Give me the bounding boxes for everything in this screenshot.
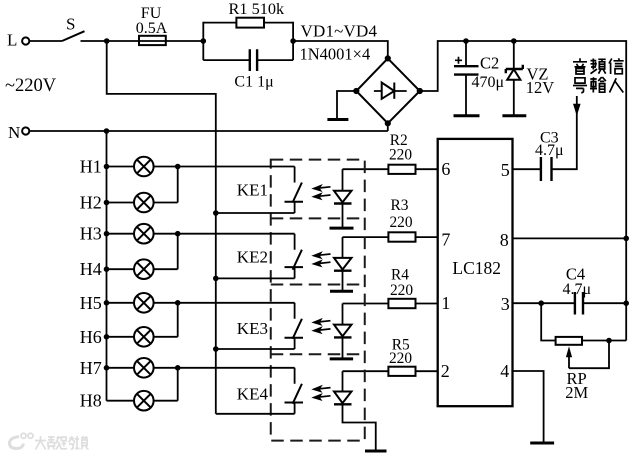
svg-text:2M: 2M [565,383,588,402]
svg-text:12V: 12V [526,78,555,97]
svg-text:6: 6 [441,159,450,179]
svg-text:VD1~VD4: VD1~VD4 [301,22,378,41]
svg-text:470μ: 470μ [472,74,505,91]
svg-text:H3: H3 [80,224,102,244]
svg-text:KE1: KE1 [237,181,268,200]
svg-text:~220V: ~220V [5,76,57,96]
svg-text:H7: H7 [80,358,102,378]
svg-text:H5: H5 [80,293,102,313]
svg-text:H2: H2 [80,193,102,213]
svg-text:L: L [7,31,17,50]
svg-text:R1 510k: R1 510k [229,0,285,18]
svg-text:5: 5 [501,160,510,180]
svg-text:R3: R3 [391,197,409,214]
svg-text:KE2: KE2 [237,248,268,267]
svg-text:7: 7 [441,229,450,249]
svg-text:4.7μ: 4.7μ [563,281,592,298]
svg-text:H1: H1 [80,157,102,177]
svg-text:0.5A: 0.5A [136,20,168,37]
svg-text:220: 220 [390,282,413,299]
svg-text:C2: C2 [480,53,499,72]
svg-text:LC182: LC182 [452,258,501,278]
svg-text:8: 8 [500,230,509,250]
svg-text:2: 2 [441,361,450,381]
svg-text:220: 220 [389,350,412,367]
svg-text:N: N [8,123,20,142]
svg-text:220: 220 [389,146,412,163]
svg-text:1: 1 [441,293,450,313]
svg-text:KE3: KE3 [237,319,268,338]
svg-text:4: 4 [500,361,509,381]
svg-text:220: 220 [389,214,412,231]
svg-text:C1 1μ: C1 1μ [234,74,273,91]
svg-text:3: 3 [501,294,510,314]
svg-text:H6: H6 [80,327,102,347]
svg-text:S: S [66,15,75,34]
svg-text:1N4001×4: 1N4001×4 [300,45,371,64]
svg-text:H4: H4 [80,259,102,279]
svg-text:KE4: KE4 [237,385,269,404]
svg-text:H8: H8 [80,391,102,411]
svg-text:4.7μ: 4.7μ [535,142,564,159]
